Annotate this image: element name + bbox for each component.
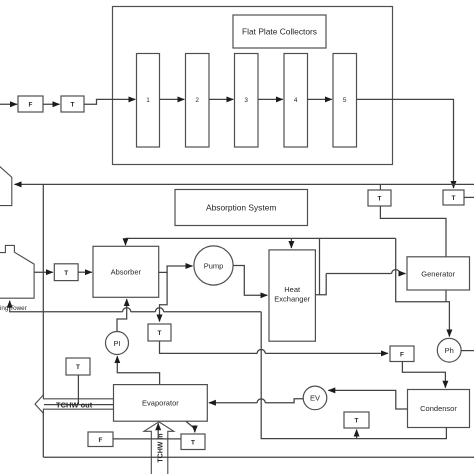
wire tower return line y=311.7 with hops [164,311,262,313]
wire panel5 output down to header [357,99,454,188]
wire evaporator to PI [117,356,159,384]
Absorption System label box [175,190,308,226]
svg-text:Absorption System: Absorption System [206,203,276,213]
svg-text:T: T [71,102,75,109]
wire evaporator to T7 [186,421,195,432]
wire PI to absorber bottom [117,299,127,331]
svg-text:PI: PI [113,339,120,348]
PI gauge circle [106,332,129,355]
svg-text:Pump: Pump [204,261,224,270]
svg-text:T: T [452,195,456,202]
wire absorber to pump [159,266,193,272]
wire hot water header y=184 to cooling tower [15,183,474,185]
wire cooling tower to T2 [34,271,53,273]
wire HX to generator with hop [326,273,392,275]
instrument T3 [368,190,391,206]
instrument F3 [390,346,414,362]
wire HX outlet [315,274,326,295]
wire F2 to T7 through chilled water arrow [113,438,183,440]
Ph gauge circle [437,338,461,362]
svg-text:5: 5 [343,97,347,104]
svg-text:Flat Plate Collectors: Flat Plate Collectors [242,27,317,37]
wire T5 to F3 with hop [160,341,258,353]
cooling tower upper cell [0,165,12,206]
instrument T2 [54,264,78,281]
svg-text:Generator: Generator [421,269,455,278]
wire panel2 to panel3 [209,98,233,100]
condensor [408,390,470,428]
svg-text:T: T [191,439,195,446]
TCHW in hollow arrow [144,422,174,474]
svg-text:F: F [29,102,33,109]
svg-text:T: T [158,330,162,337]
wire F1 to T1 [43,103,60,105]
instrument F2 [88,432,113,447]
svg-text:Cooling Tower: Cooling Tower [0,305,27,312]
wire panel1 to panel2 [160,98,185,100]
instrument T3 stub [379,184,381,190]
wire absorber branch down to T5 [160,272,168,321]
svg-text:T: T [355,418,359,425]
wire T1 to panel 1 [84,99,135,104]
instrument T1 [61,96,84,112]
outer collector field box [113,7,393,165]
collector panel 2 [186,54,210,148]
wire T8 branch [356,430,358,439]
svg-text:TCHW out: TCHW out [56,400,93,409]
collector panel 1 [137,54,160,148]
svg-text:Condensor: Condensor [420,404,457,413]
instrument T5 [148,324,171,341]
EV valve circle [303,386,327,410]
wire Ph to right edge [461,350,474,352]
wire condensor bottom return loop [261,312,446,439]
wire drop into absorber top [125,238,127,245]
heat exchanger [269,250,315,341]
wire cooling-water riser x=43 [42,184,44,457]
wire T4 to right edge [464,196,474,198]
generator [407,257,470,290]
svg-text:F: F [400,351,404,358]
svg-text:Absorber: Absorber [111,268,142,277]
svg-text:T: T [378,196,382,203]
wire drop into heat exchanger top [290,238,292,248]
wire condensor to EV [328,390,407,409]
wire T2 to absorber [78,271,92,273]
wire generator bottom to Ph line [445,290,447,302]
svg-text:4: 4 [294,97,298,104]
wire panel4 to panel5 [308,98,332,100]
svg-text:Ph: Ph [445,346,454,355]
absorber U1 [93,246,159,297]
title box Flat Plate Collectors [233,15,326,48]
wire right drop y238 to Ph [396,238,450,336]
wire bottom return line y=457 [43,456,474,458]
svg-text:2: 2 [195,97,199,104]
wire F3 to condensor top [402,362,445,388]
evaporator [114,385,208,422]
wire branch up to evaporator bottom [157,423,159,439]
TCHW out hollow arrow [35,395,114,413]
instrument T4 [443,190,464,205]
svg-text:Exchanger: Exchanger [274,295,310,304]
pump circle [194,246,233,285]
svg-text:1: 1 [146,97,150,104]
collector panel 5 [333,54,357,148]
wire drop y238 to HX outlet line [319,238,321,294]
wire EV to evaporator with hop [265,399,303,403]
svg-text:Heat: Heat [284,285,301,294]
instrument F1 [18,96,43,112]
wire distribution line y=238 [126,237,396,239]
wire pump to heat exchanger [233,266,267,296]
wire T3 to generator top [380,206,446,257]
collector panel 3 [235,54,259,148]
wire panel3 to panel4 [258,98,283,100]
instrument T8 [344,412,369,428]
cooling tower lower cell [0,245,34,298]
wire chilled water out pipe [44,404,114,406]
wire T6 stub to chilled water line [77,375,79,405]
svg-text:3: 3 [244,97,248,104]
svg-text:EV: EV [310,394,320,403]
svg-text:Evaporator: Evaporator [142,399,179,408]
collector panel 4 [284,54,308,148]
svg-text:T: T [64,270,68,277]
svg-text:F: F [99,437,103,444]
instrument T6 [66,358,90,375]
svg-text:T: T [76,364,80,371]
wire feed into F1 [0,103,17,105]
instrument T7 [181,434,205,450]
